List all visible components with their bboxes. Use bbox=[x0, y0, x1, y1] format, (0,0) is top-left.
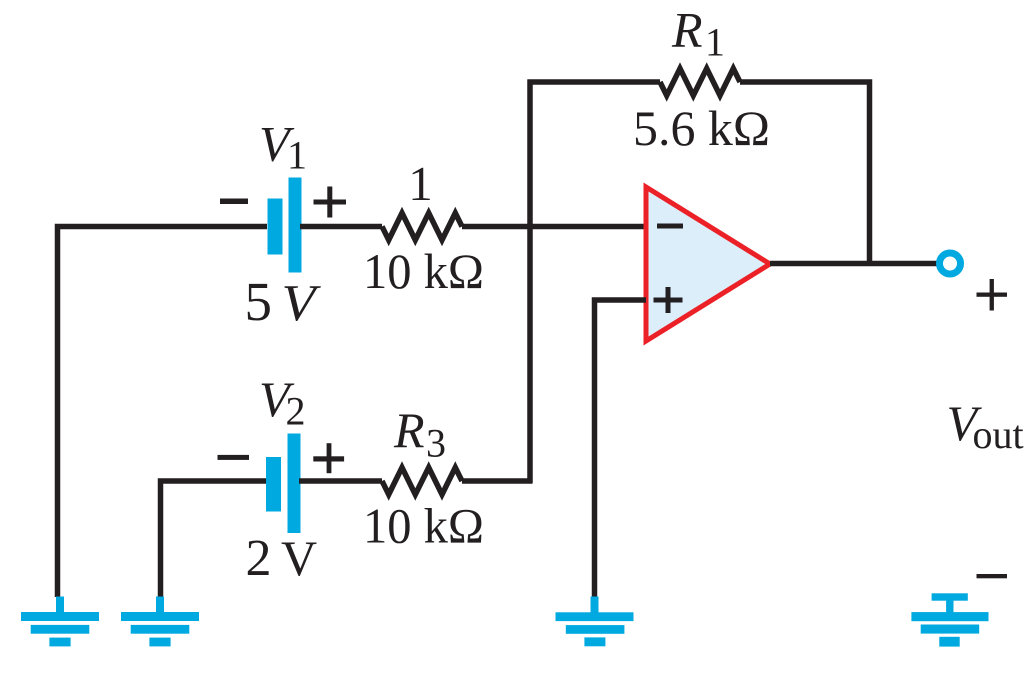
battery V1 positive plate bbox=[289, 178, 302, 273]
wire: summing junction vertical (feedback left leg down to R3) bbox=[527, 80, 533, 484]
svg-text:5.6 kΩ: 5.6 kΩ bbox=[633, 100, 770, 156]
label + at output bbox=[977, 279, 1008, 311]
ground 3 (noninverting input ground) bbox=[556, 597, 634, 647]
label V2 bbox=[259, 371, 306, 434]
label 5.6 kOhm for R1 bbox=[633, 100, 770, 156]
svg-text:1: 1 bbox=[408, 156, 433, 211]
wire: feedback top left segment bbox=[528, 79, 661, 85]
wire: noninverting input down to ground 3 bbox=[595, 300, 647, 597]
label 10 kOhm for R3 bbox=[363, 498, 484, 554]
resistor R3 zigzag bbox=[382, 468, 462, 495]
label R3 bbox=[393, 402, 446, 466]
label V1 bbox=[259, 116, 307, 178]
wire: R2 to inverting input, crossing summing junction bbox=[462, 224, 646, 230]
svg-text:2: 2 bbox=[246, 530, 272, 587]
label 5 V bbox=[245, 271, 322, 332]
resistor R2 zigzag bbox=[382, 213, 462, 240]
battery V1 minus sign bbox=[220, 199, 248, 205]
label R1 bbox=[671, 2, 725, 65]
battery V1 negative plate bbox=[268, 199, 283, 255]
wire: feedback top right segment and right vertical down to output bbox=[740, 82, 870, 264]
svg-text:1: 1 bbox=[705, 20, 725, 65]
label minus at output ground bbox=[977, 574, 1008, 578]
label 1 (R2 designator) bbox=[408, 156, 433, 211]
svg-text:3: 3 bbox=[426, 421, 446, 466]
svg-text:out: out bbox=[973, 412, 1024, 457]
svg-text:V: V bbox=[281, 530, 317, 586]
label 2 V bbox=[246, 530, 318, 587]
output terminal (open circle) bbox=[940, 253, 961, 274]
svg-text:V: V bbox=[282, 275, 322, 332]
svg-text:1: 1 bbox=[287, 133, 307, 178]
battery V2 plus sign bbox=[313, 443, 344, 473]
label 10 kOhm for R2 bbox=[363, 243, 484, 299]
svg-text:5: 5 bbox=[245, 271, 273, 332]
ground 4 (output reference ground, with terminal bar) bbox=[911, 593, 988, 646]
svg-text:R: R bbox=[393, 402, 425, 458]
wire: V2 positive terminal to resistor R3 bbox=[299, 478, 382, 484]
svg-text:10 kΩ: 10 kΩ bbox=[363, 498, 484, 554]
wire: op-amp output to terminal bbox=[770, 261, 937, 267]
wire: left ground loop from V1 minus terminal down to ground 1 bbox=[58, 227, 268, 598]
battery V1 plus sign bbox=[314, 187, 347, 218]
battery V2 positive plate bbox=[288, 434, 301, 534]
op-amp U1 bbox=[646, 187, 770, 341]
ground 1 (left loop ground) bbox=[21, 597, 99, 647]
battery V2 minus sign bbox=[218, 455, 250, 460]
svg-text:2: 2 bbox=[286, 389, 306, 434]
ground 2 (V2 loop ground) bbox=[121, 597, 199, 647]
wire: V2 ground loop down to ground 2 bbox=[161, 481, 267, 597]
battery V2 negative plate bbox=[266, 457, 281, 512]
svg-text:10 kΩ: 10 kΩ bbox=[363, 243, 484, 299]
op-amp noninverting input plus sign bbox=[654, 287, 683, 313]
resistor R1 zigzag bbox=[660, 69, 740, 96]
wire: V1 positive terminal to resistor R2 bbox=[300, 224, 382, 230]
op-amp inverting input minus sign bbox=[657, 224, 683, 229]
svg-text:R: R bbox=[671, 2, 703, 58]
wire: R3 to summing junction bbox=[462, 478, 532, 484]
label Vout bbox=[947, 395, 1024, 457]
